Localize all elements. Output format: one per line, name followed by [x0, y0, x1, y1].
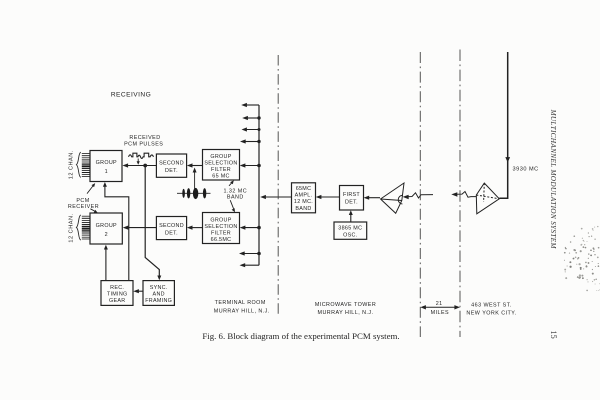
svg-text:GROUP: GROUP — [96, 160, 117, 166]
svg-text:3865 MC: 3865 MC — [338, 226, 362, 232]
scan smudge — [564, 226, 600, 291]
svg-text:12 CHAN.: 12 CHAN. — [68, 150, 74, 179]
box REC. TIMING GEAR — [101, 281, 133, 306]
svg-text:SYNC.: SYNC. — [150, 285, 168, 291]
box FIRST DET. — [340, 186, 364, 211]
channel comb (group 2) — [82, 216, 90, 239]
junction node on wire — [143, 164, 147, 168]
box SECOND DET. (upper) — [156, 154, 186, 177]
brace (group 1) — [76, 152, 80, 177]
svg-text:MILES: MILES — [431, 310, 449, 316]
svg-text:GROUP: GROUP — [210, 217, 231, 223]
svg-text:DET.: DET. — [165, 231, 178, 237]
box SECOND DET. (lower) — [156, 217, 186, 240]
svg-text:2: 2 — [105, 232, 108, 238]
box 3865 MC OSC. — [334, 222, 367, 239]
svg-text:463 WEST ST.: 463 WEST ST. — [471, 302, 512, 308]
svg-text:BAND: BAND — [227, 195, 244, 201]
svg-text:21: 21 — [436, 301, 443, 307]
label PCM RECEIVER — [68, 198, 99, 210]
horn antenna (Murray Hill) — [381, 183, 405, 213]
svg-text:1: 1 — [105, 169, 108, 175]
svg-text:AMPL.: AMPL. — [295, 193, 313, 199]
horn antenna (New York) — [476, 183, 499, 214]
wire SECOND DET to GROUP 1 with arrow — [126, 165, 157, 167]
wire rec timing gear up to group 2 — [105, 248, 107, 281]
svg-text:MICROWAVE TOWER: MICROWAVE TOWER — [315, 302, 376, 308]
pointer RECEIVER to group 2 — [90, 209, 95, 212]
wire SYNC to REC with arrow — [136, 290, 143, 292]
box GROUP SELECTION FILTER 66.5 MC — [203, 213, 240, 244]
svg-text:DET.: DET. — [345, 200, 358, 206]
svg-text:FIRST: FIRST — [343, 192, 360, 198]
wire horn to FIRST DET with arrow — [367, 197, 381, 199]
boundary dash-dot line 1 (terminal room) — [277, 55, 279, 314]
svg-text:3930 MC: 3930 MC — [513, 166, 539, 172]
svg-text:REC.: REC. — [110, 285, 124, 291]
svg-text:OSC.: OSC. — [343, 233, 357, 239]
box GROUP 2 — [90, 213, 122, 244]
svg-text:GROUP: GROUP — [96, 223, 117, 229]
wire junction to sync and framing — [145, 166, 159, 278]
wire FIRST DET to AMPL with arrow — [319, 196, 340, 198]
svg-text:PCM PULSES: PCM PULSES — [124, 141, 163, 147]
feed line from top with arrow (3930 MC) — [499, 52, 507, 198]
pointer PCM to group 1 — [87, 186, 93, 194]
svg-text:65 MC: 65 MC — [212, 174, 229, 180]
svg-text:GROUP: GROUP — [210, 154, 231, 160]
svg-text:MURRAY HILL, N.J.: MURRAY HILL, N.J. — [214, 308, 270, 314]
svg-text:Fig. 6. Block diagram of the e: Fig. 6. Block diagram of the experimenta… — [202, 331, 399, 341]
svg-text:PCM: PCM — [76, 198, 89, 204]
label MICROWAVE TOWER MURRAY HILL NJ — [315, 302, 376, 316]
bus branch arrows top — [244, 104, 259, 106]
microwave path zigzag 1 with arrow — [406, 193, 434, 198]
svg-text:AND: AND — [153, 291, 165, 297]
label RECEIVED PCM PULSES — [124, 135, 163, 147]
svg-text:SELECTION: SELECTION — [204, 161, 237, 167]
svg-text:12 CHAN.: 12 CHAN. — [68, 213, 74, 242]
pointer to filter 65 — [229, 182, 232, 186]
wire OSC up to FIRST DET with arrow — [350, 213, 352, 222]
wire AMPL to bus with arrow — [263, 196, 291, 198]
box GROUP SELECTION FILTER 65 MC — [203, 150, 240, 181]
channel comb (group 1) — [82, 154, 90, 177]
svg-text:BAND: BAND — [295, 206, 311, 212]
wire FILTER 66.5 to SECOND DET 2 with arrow — [190, 227, 203, 229]
21 MILES dimension arrow — [423, 306, 457, 308]
bus branch arrows bottom — [242, 253, 259, 255]
wire bus to FILTER 66.5 with arrow — [243, 227, 259, 229]
svg-text:RECEIVING: RECEIVING — [111, 92, 151, 99]
svg-text:TIMING: TIMING — [107, 291, 128, 297]
svg-text:RECEIVED: RECEIVED — [129, 135, 160, 141]
microwave path zigzag 2 with arrow — [454, 192, 476, 198]
filter spectrum blobs — [177, 192, 211, 194]
svg-text:MULTICHANNEL MODULATION SYSTEM: MULTICHANNEL MODULATION SYSTEM — [549, 109, 558, 250]
svg-text:65MC: 65MC — [296, 186, 312, 192]
svg-text:DET.: DET. — [165, 168, 178, 174]
arrow from waveform down to wire — [137, 159, 139, 163]
label 463 WEST ST NEW YORK CITY — [466, 302, 516, 316]
box 65MC AMPL 12 MC BAND — [292, 183, 316, 213]
wire FILTER 65 to SECOND DET with arrow — [190, 165, 203, 167]
svg-text:FILTER: FILTER — [211, 230, 231, 236]
svg-text:12 MC.: 12 MC. — [294, 199, 313, 205]
arrow from blobs up to wire — [194, 170, 196, 189]
waveform PCM pulses — [129, 153, 154, 158]
svg-text:15: 15 — [549, 331, 558, 339]
svg-text:FILTER: FILTER — [211, 167, 231, 173]
wire bus to FILTER 65 with arrow — [243, 165, 259, 167]
svg-text:66.5MC: 66.5MC — [211, 237, 232, 243]
label 1.32 MC BAND — [224, 188, 248, 200]
wire SECOND DET 2 to GROUP 2 with arrow — [126, 227, 157, 229]
junction dots on bus at filter taps — [257, 164, 261, 168]
svg-text:SECOND: SECOND — [159, 223, 184, 229]
svg-text:MURRAY HILL, N.J.: MURRAY HILL, N.J. — [318, 310, 374, 316]
svg-text:GEAR: GEAR — [109, 298, 125, 304]
label TERMINAL ROOM MURRAY HILL NJ — [214, 300, 270, 314]
svg-text:TERMINAL ROOM: TERMINAL ROOM — [215, 300, 266, 306]
box GROUP 1 — [90, 151, 122, 182]
pointer to filter 66.5 — [230, 200, 234, 210]
brace (group 2) — [76, 215, 80, 240]
svg-text:RECEIVER: RECEIVER — [68, 204, 99, 210]
boundary dash-dot line 2 (microwave tower) — [419, 52, 421, 337]
vertical bus — [258, 105, 260, 265]
svg-text:FRAMING: FRAMING — [145, 298, 172, 304]
boundary dash-dot line 3 (new york) — [459, 50, 461, 338]
svg-text:NEW YORK CITY.: NEW YORK CITY. — [466, 311, 516, 317]
wire from group 1 bottom to rec timing gear — [105, 185, 129, 281]
svg-text:SELECTION: SELECTION — [204, 224, 237, 230]
svg-text:1.32 MC: 1.32 MC — [224, 188, 248, 194]
svg-text:SECOND: SECOND — [159, 160, 184, 166]
box SYNC. AND FRAMING — [143, 281, 174, 306]
